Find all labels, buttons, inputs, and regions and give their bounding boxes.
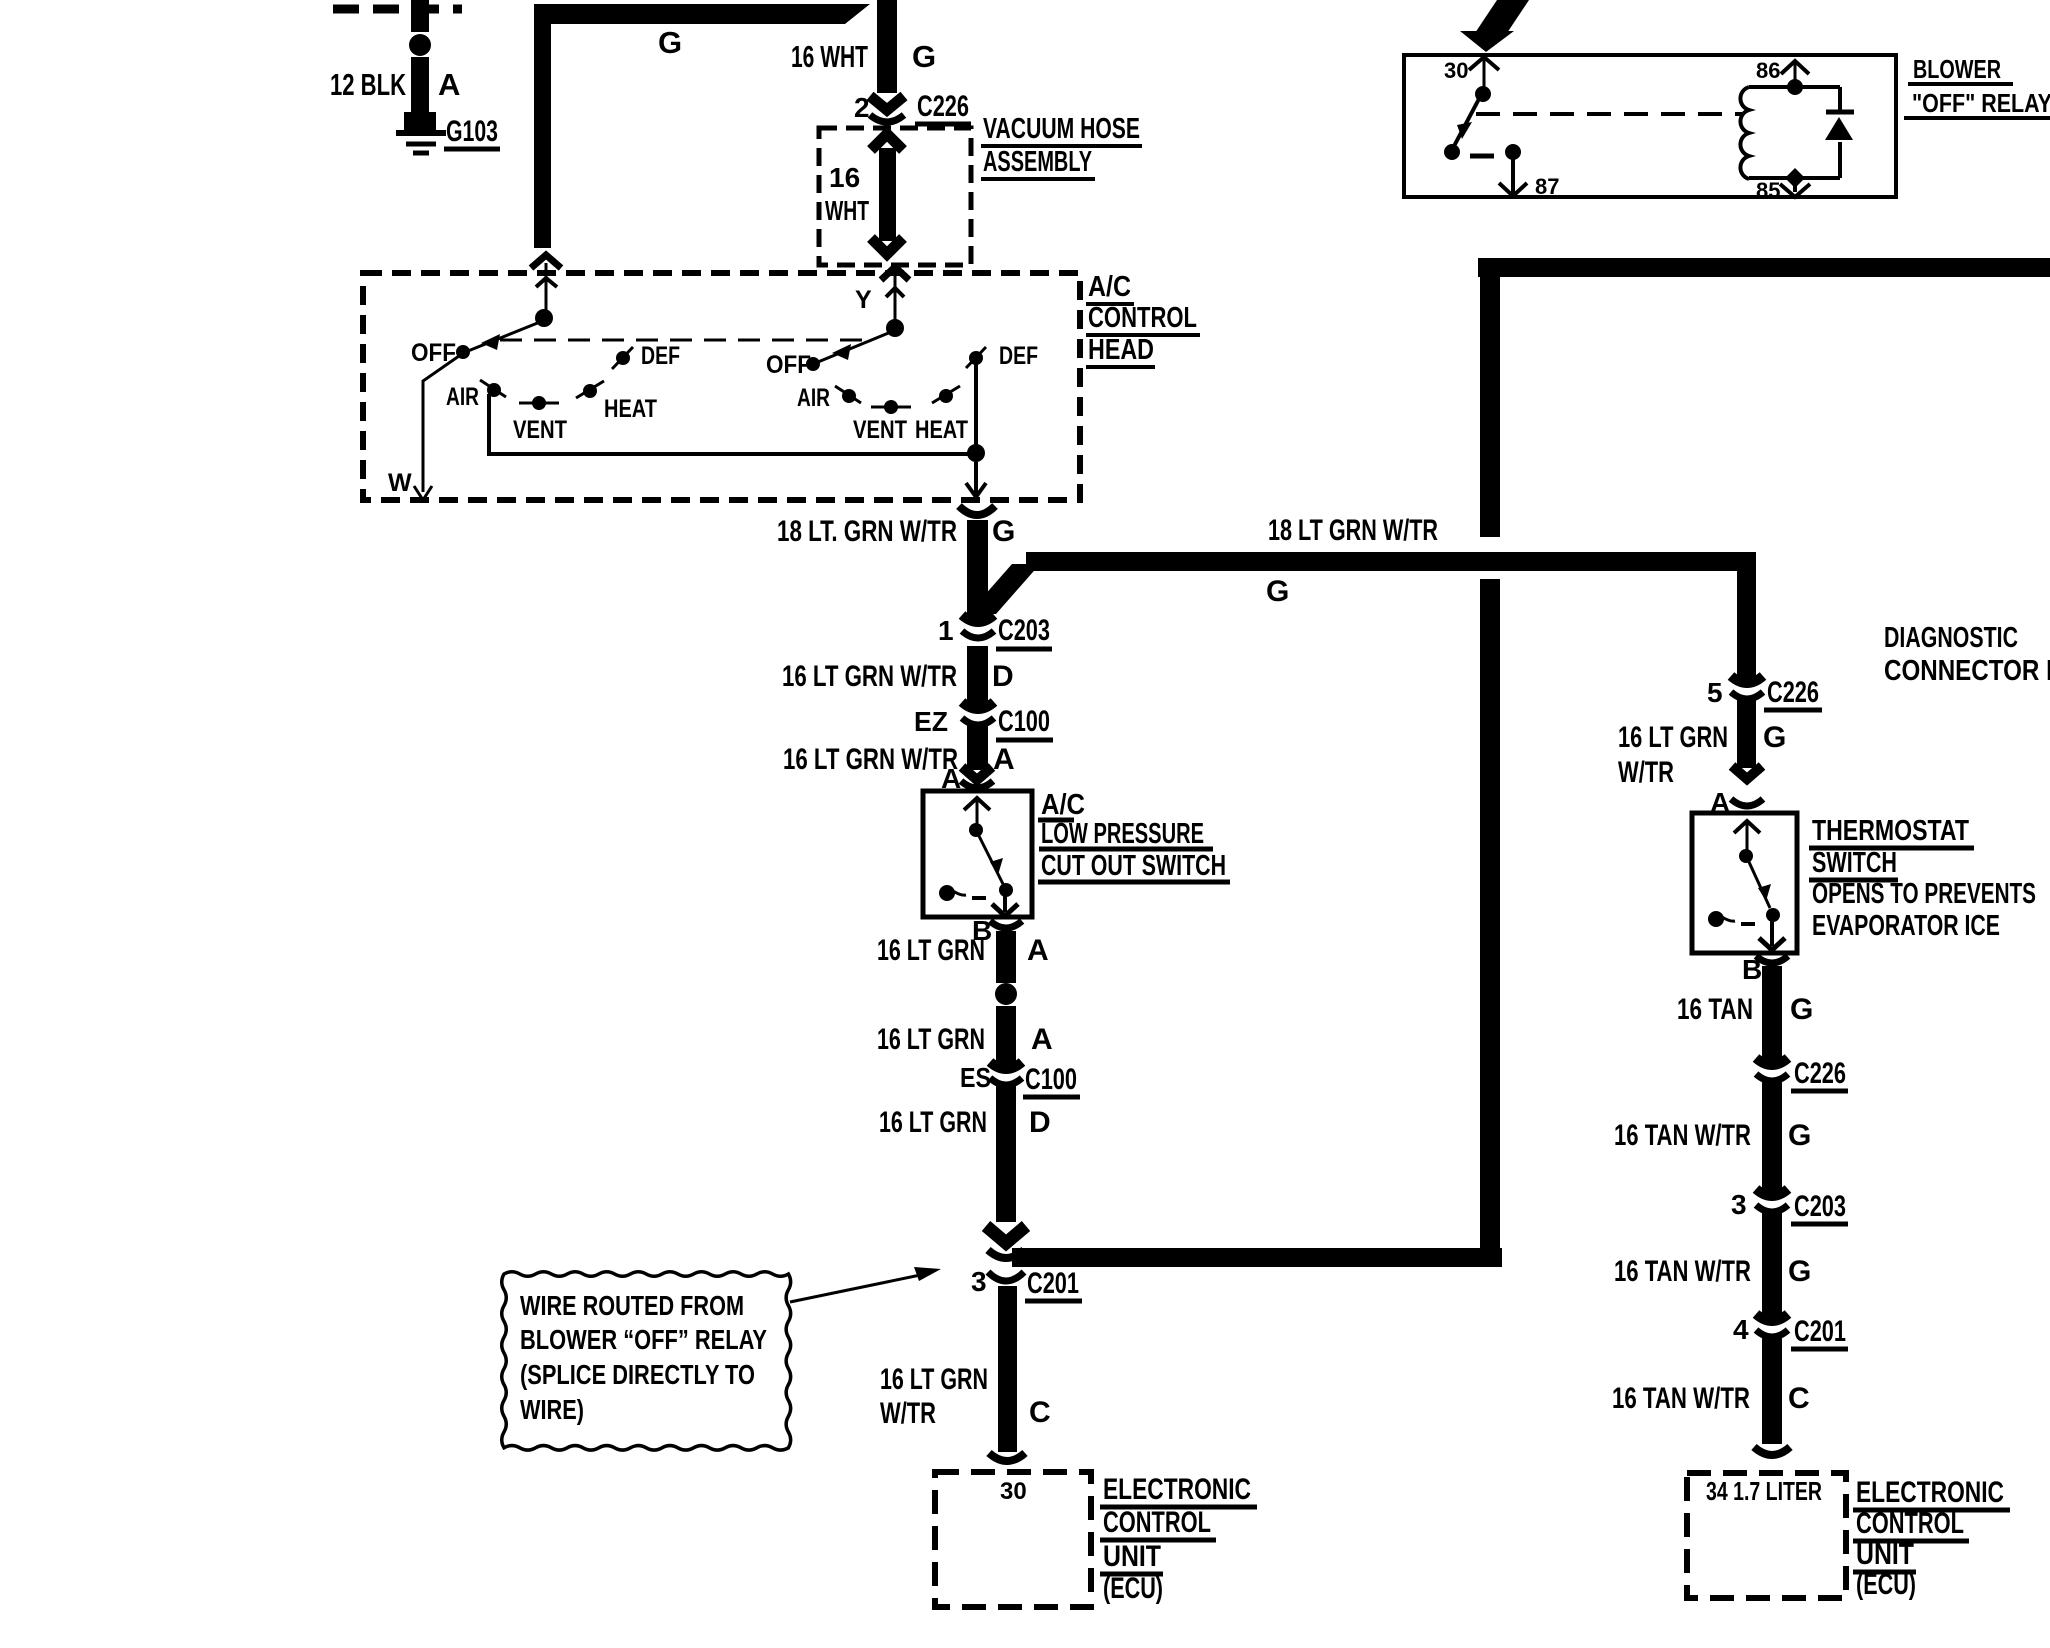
wire: G circuit from A/C control head up and to the right: [534, 4, 870, 248]
wire: 18 LT GRN W/TR horizontal run to right: [1026, 552, 1756, 571]
wire W from OFF down to bottom border: [423, 356, 459, 492]
junction splice dot on 12 BLK wire: [409, 34, 431, 56]
female cup on switch case: [961, 781, 993, 788]
connector C201 pin 4 (right): [1756, 1314, 1788, 1337]
wire: relay output thick wire (top right corner): [1478, 258, 2050, 277]
wire below C100: [967, 726, 988, 770]
svg-text:HEAD: HEAD: [1088, 334, 1154, 366]
female cup on thermostat case: [1731, 799, 1763, 806]
wire below C203: [1762, 1213, 1782, 1323]
dash between contacts: [972, 896, 986, 900]
svg-text:D: D: [992, 660, 1014, 693]
svg-text:WHT: WHT: [825, 195, 869, 226]
svg-text:16 TAN W/TR: 16 TAN W/TR: [1614, 1119, 1751, 1152]
ground symbol G103: [396, 130, 446, 136]
svg-text:D: D: [1029, 1106, 1051, 1139]
switch left contact dot with tail: [939, 885, 955, 901]
connector C226 pin 2 (male half): [870, 96, 904, 110]
dashed wire stub crossing 12 BLK at top: [333, 5, 462, 14]
female cup below switch: [990, 921, 1022, 928]
right selector rotor dot: [886, 319, 904, 337]
left AIR contact dot: [487, 383, 501, 397]
svg-text:C201: C201: [1027, 1267, 1079, 1300]
svg-text:G: G: [1788, 1255, 1811, 1288]
svg-text:16 LT GRN: 16 LT GRN: [879, 1106, 987, 1139]
svg-text:ELECTRONIC: ELECTRONIC: [1856, 1476, 2004, 1509]
svg-text:DEF: DEF: [999, 342, 1038, 370]
svg-text:12 BLK: 12 BLK: [330, 67, 406, 102]
left OFF contact dot: [456, 345, 470, 359]
wire: 18 LT. GRN W/TR main vertical: [967, 520, 988, 623]
output lead with arrow through bottom border: [974, 453, 978, 494]
svg-text:16 LT GRN: 16 LT GRN: [877, 1023, 985, 1056]
right vacuum selector: line up through top border: [881, 267, 909, 280]
relay pin 86 dot and arrow: [1787, 79, 1803, 95]
svg-text:4: 4: [1733, 1314, 1749, 1345]
vacuum hose wire down arrow: [871, 238, 903, 254]
svg-text:EVAPORATOR ICE: EVAPORATOR ICE: [1812, 910, 2000, 942]
relay switch lower contact dot: [1444, 144, 1460, 160]
svg-text:ES: ES: [960, 1062, 991, 1093]
annotation wavy box: wire routed from blower off relay: [502, 1272, 791, 1450]
svg-text:C: C: [1029, 1396, 1051, 1429]
wire: 12 BLK lower segment: [411, 57, 429, 115]
left selector rotor dot: [535, 309, 553, 327]
relay coil: [1740, 87, 1749, 179]
relay pin 87 lead and arrow: [1511, 152, 1515, 194]
left VENT contact dot: [532, 396, 546, 410]
svg-text:C100: C100: [998, 705, 1050, 738]
svg-text:DEF: DEF: [641, 342, 680, 370]
ECU dashed box (left): [935, 1472, 1091, 1607]
svg-text:16 LT GRN: 16 LT GRN: [1618, 721, 1728, 754]
vacuum hose assembly dashed box: [819, 128, 971, 265]
wire: 16 WHT vertical at top: [877, 0, 897, 93]
connector C226 pin 2 (female half): [870, 115, 904, 122]
wire: 12 BLK ground feed (top left): [411, 0, 429, 32]
svg-text:EZ: EZ: [914, 706, 948, 737]
svg-text:C226: C226: [917, 90, 969, 123]
svg-text:18 LT. GRN W/TR: 18 LT. GRN W/TR: [777, 515, 957, 548]
male arrow into thermostat connector: [1732, 766, 1762, 779]
svg-text:A: A: [993, 743, 1015, 776]
male arrow at bottom junction: [986, 1226, 1026, 1243]
svg-text:VACUUM HOSE: VACUUM HOSE: [983, 113, 1140, 145]
relay pin 30: [1469, 57, 1499, 70]
svg-text:G: G: [1763, 721, 1786, 754]
ECU dashed box (right): [1687, 1473, 1846, 1598]
wire: relay output vertical lower segment: [1480, 579, 1500, 1267]
svg-text:C203: C203: [998, 614, 1050, 647]
svg-text:C100: C100: [1025, 1063, 1077, 1096]
svg-text:3: 3: [971, 1266, 987, 1297]
wire below switch: [996, 931, 1016, 983]
svg-text:Y: Y: [855, 286, 872, 314]
svg-text:DIAGNOSTIC: DIAGNOSTIC: [1884, 622, 2018, 654]
svg-text:16 LT GRN W/TR: 16 LT GRN W/TR: [783, 743, 958, 776]
relay switch arm: [1453, 97, 1480, 148]
right VENT contact dot: [884, 400, 898, 414]
wire below C226: [1737, 700, 1756, 768]
svg-text:16: 16: [829, 162, 860, 193]
wire end chevron into control head top: [531, 255, 561, 268]
relay linkage dashed line: [1476, 112, 1742, 116]
svg-text:OPENS TO PREVENTS: OPENS TO PREVENTS: [1812, 878, 2036, 910]
svg-text:BLOWER “OFF” RELAY: BLOWER “OFF” RELAY: [520, 1324, 767, 1355]
relay pin 85 dot and arrow: [1785, 168, 1805, 188]
svg-text:C: C: [1788, 1382, 1810, 1415]
svg-text:CONNECTOR D2: CONNECTOR D2: [1884, 655, 2050, 687]
svg-text:34 1.7 LITER: 34 1.7 LITER: [1706, 1476, 1822, 1506]
svg-text:C203: C203: [1794, 1190, 1846, 1223]
svg-text:87: 87: [1535, 174, 1559, 199]
svg-text:W/TR: W/TR: [1618, 756, 1674, 789]
svg-text:A: A: [1027, 934, 1049, 967]
switch blade (open): [979, 836, 1003, 884]
wire below C203: [967, 646, 988, 710]
svg-text:16 TAN W/TR: 16 TAN W/TR: [1612, 1382, 1750, 1415]
svg-text:C201: C201: [1794, 1315, 1846, 1348]
left HEAT contact dot: [583, 384, 597, 398]
female connector at top of main 18 LT GRN wire: [959, 506, 995, 515]
female cup into ECU: [989, 1453, 1025, 1461]
wire from DEF dot to output junction: [974, 362, 978, 450]
svg-text:G: G: [912, 39, 936, 74]
svg-text:BLOWER: BLOWER: [1913, 54, 2001, 84]
svg-text:WIRE ROUTED FROM: WIRE ROUTED FROM: [520, 1290, 744, 1321]
switch lower contact dot: [999, 883, 1013, 897]
svg-text:VENT: VENT: [513, 416, 567, 444]
thermostat blade (open): [1749, 862, 1770, 908]
right OFF contact dot: [806, 357, 820, 371]
thermostat output arrow: [1770, 920, 1774, 946]
switch upper contact dot: [969, 823, 983, 837]
A/C control head dashed box: [363, 273, 1080, 500]
female cup into right ECU: [1754, 1447, 1790, 1455]
switch input arrow inside box: [964, 798, 990, 810]
svg-text:85: 85: [1756, 178, 1780, 203]
thermostat switch box: [1692, 813, 1797, 953]
annotation leader arrow: [790, 1273, 930, 1302]
switch output arrow: [1003, 895, 1007, 912]
svg-text:2: 2: [854, 92, 870, 123]
mechanical linkage dashed line: [500, 339, 868, 342]
wire below C226: [1762, 1082, 1782, 1198]
vacuum hose wire with up arrow: [871, 134, 903, 150]
output junction dot: [967, 444, 985, 462]
connector C226 pin 5 (right column): [1731, 676, 1763, 699]
connector C100 pin ES: [990, 1062, 1022, 1085]
svg-text:(ECU): (ECU): [1103, 1572, 1163, 1605]
wire: relay output vertical upper segment: [1480, 258, 1500, 537]
thermostat lower contact dot: [1766, 908, 1780, 922]
svg-text:UNIT: UNIT: [1856, 1538, 1914, 1571]
svg-text:ELECTRONIC: ELECTRONIC: [1103, 1473, 1251, 1506]
svg-text:AIR: AIR: [446, 383, 479, 411]
svg-text:30: 30: [1000, 1478, 1027, 1505]
wire: right column vertical down to C226: [1737, 552, 1756, 685]
svg-text:LOW PRESSURE: LOW PRESSURE: [1041, 818, 1204, 850]
connector C203 pin 3 (right): [1756, 1189, 1788, 1212]
wire from AIR dot down and right to DEF junction: [489, 394, 976, 454]
female cup at junction with horizontal run: [988, 1250, 1024, 1258]
svg-text:A: A: [438, 67, 460, 102]
svg-text:16 LT GRN: 16 LT GRN: [880, 1363, 988, 1396]
svg-text:16 WHT: 16 WHT: [791, 39, 868, 74]
svg-text:HEAT: HEAT: [915, 416, 968, 444]
svg-text:CONTROL: CONTROL: [1856, 1507, 1964, 1540]
svg-text:16 TAN W/TR: 16 TAN W/TR: [1614, 1255, 1751, 1288]
svg-text:ASSEMBLY: ASSEMBLY: [983, 146, 1092, 178]
svg-text:1: 1: [938, 615, 954, 646]
svg-text:5: 5: [1707, 677, 1723, 708]
svg-text:C226: C226: [1794, 1057, 1846, 1090]
svg-text:G: G: [658, 25, 682, 60]
dash between contacts: [1741, 922, 1755, 926]
svg-text:CUT OUT SWITCH: CUT OUT SWITCH: [1041, 850, 1226, 882]
svg-text:G: G: [1788, 1119, 1811, 1152]
left selector arm with arrow: [468, 322, 540, 351]
svg-text:G103: G103: [446, 115, 498, 148]
male arrow into pressure switch connector: [962, 767, 992, 780]
relay switch contact dot (pin30): [1475, 86, 1491, 102]
left vacuum selector: rotor line to G wire: [545, 263, 548, 315]
connector C203 pin 1: [962, 615, 994, 638]
svg-text:16 TAN: 16 TAN: [1677, 993, 1753, 1026]
relay pin 87 contact dot: [1505, 144, 1521, 160]
right selector arm with arrow: [818, 332, 891, 362]
left DEF contact dot: [616, 351, 630, 365]
svg-text:3: 3: [1731, 1189, 1747, 1220]
female cup below thermostat: [1756, 956, 1788, 963]
thermostat upper contact dot: [1739, 849, 1753, 863]
svg-text:"OFF" RELAY: "OFF" RELAY: [1912, 88, 2050, 118]
svg-text:G: G: [992, 515, 1015, 548]
svg-text:HEAT: HEAT: [604, 395, 657, 423]
wire: branch diagonal to right run: [968, 564, 1040, 614]
svg-text:18 LT GRN W/TR: 18 LT GRN W/TR: [1268, 514, 1438, 547]
svg-text:VENT: VENT: [853, 416, 907, 444]
svg-text:30: 30: [1444, 58, 1468, 83]
relay clamp diode: [1838, 87, 1842, 114]
svg-text:WIRE): WIRE): [520, 1394, 584, 1425]
A/C low pressure cut out switch box: [923, 791, 1032, 917]
svg-text:G: G: [1266, 575, 1289, 608]
svg-text:CONTROL: CONTROL: [1103, 1506, 1211, 1539]
svg-text:W: W: [388, 469, 412, 497]
wire: thick feed into relay pin 30: [1475, 0, 1529, 33]
connector C226 (right lower): [1756, 1058, 1788, 1081]
connector C100 pin EZ: [962, 702, 994, 725]
svg-text:UNIT: UNIT: [1103, 1540, 1161, 1573]
svg-text:A: A: [1031, 1023, 1053, 1056]
svg-text:86: 86: [1756, 58, 1780, 83]
svg-text:16 LT GRN: 16 LT GRN: [877, 934, 985, 967]
svg-text:G: G: [1790, 993, 1813, 1026]
svg-text:A/C: A/C: [1041, 789, 1085, 821]
wire: bottom horizontal run to C201 junction: [1012, 1248, 1502, 1267]
thermostat left contact dot with tail: [1708, 911, 1724, 927]
dash between contacts: [1470, 154, 1494, 159]
svg-text:THERMOSTAT: THERMOSTAT: [1812, 815, 1969, 847]
svg-text:(SPLICE DIRECTLY TO: (SPLICE DIRECTLY TO: [520, 1359, 755, 1390]
wire below C201: [1762, 1338, 1782, 1444]
right DEF contact dot: [969, 351, 983, 365]
svg-text:CONTROL: CONTROL: [1088, 302, 1197, 334]
right HEAT contact dot: [939, 389, 953, 403]
splice junction dot: [995, 983, 1017, 1005]
wire below thermostat: [1762, 966, 1782, 1067]
right AIR contact dot: [842, 389, 856, 403]
svg-text:16 LT GRN W/TR: 16 LT GRN W/TR: [782, 660, 957, 693]
wire below junction: [996, 1006, 1016, 1071]
relay box: blower off relay: [1404, 55, 1896, 197]
wire below C201: [998, 1286, 1017, 1452]
svg-text:W/TR: W/TR: [880, 1397, 936, 1430]
thermostat input arrow: [1734, 821, 1760, 833]
svg-text:A/C: A/C: [1088, 271, 1131, 303]
splice terminal at ground: [404, 112, 436, 130]
svg-text:C226: C226: [1767, 676, 1819, 709]
connector C201 pin 3 (female): [988, 1272, 1024, 1281]
svg-text:SWITCH: SWITCH: [1812, 847, 1897, 879]
svg-text:OFF: OFF: [766, 351, 811, 379]
svg-text:AIR: AIR: [797, 384, 830, 412]
svg-text:(ECU): (ECU): [1856, 1568, 1916, 1601]
wire below ES C100: [996, 1086, 1016, 1222]
